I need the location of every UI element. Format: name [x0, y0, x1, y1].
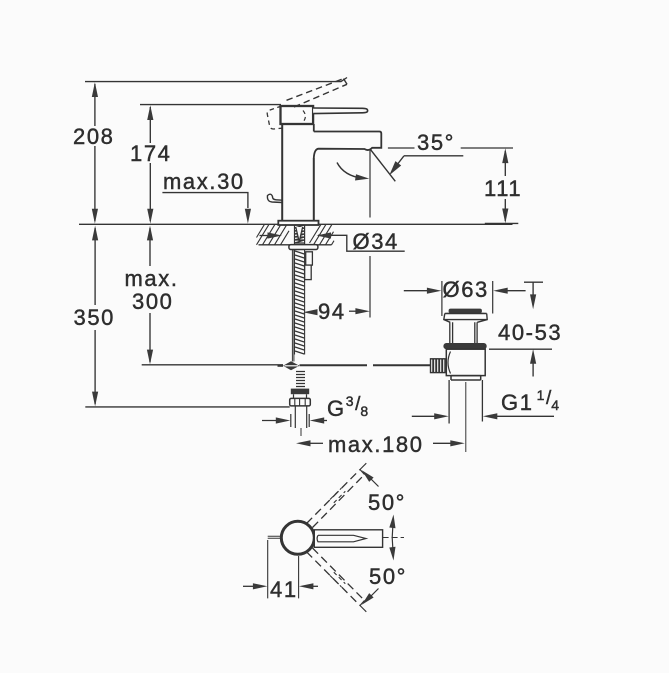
dim 40-53 mid extension [489, 348, 552, 350]
drain linkage knob [431, 359, 446, 373]
dim max.180 left arrow [308, 442, 323, 444]
faucet cap (cartridge housing) [281, 106, 314, 124]
svg-text:174: 174 [130, 141, 172, 166]
faucet base flange [278, 221, 318, 225]
plan view: faucet body circle [281, 521, 314, 554]
dim 174 arrow up [147, 105, 153, 120]
water stream line upper [369, 151, 371, 218]
plan view: -50 handle slot dashes [330, 572, 345, 587]
svg-text:50°: 50° [368, 490, 406, 515]
dim 35 deg reference line [388, 147, 513, 149]
shank thread below flange [295, 225, 305, 243]
dim 174 vertical line [149, 107, 151, 143]
deck hatching right [310, 224, 335, 245]
supply hose braid [295, 250, 305, 355]
dim G3/8 extent ticks [291, 414, 309, 427]
svg-text:41: 41 [270, 577, 298, 602]
dim 41 left arrow [243, 585, 257, 587]
horizontal pop-up linkage rod [300, 364, 368, 366]
dim 208 vertical line [94, 84, 96, 126]
dim 41 extent lines [268, 540, 299, 598]
drain rocker arc [448, 352, 451, 374]
dim max.300 arrow up [147, 226, 153, 241]
dim O63 right arrow [504, 290, 526, 292]
dim O34 right arrow [317, 232, 332, 238]
plan view: handle [314, 530, 382, 548]
linkage ball joint [283, 361, 300, 370]
dim max.30 underline and drop line [162, 193, 248, 208]
dim 94 right arrow [349, 310, 356, 312]
dim max.300 vertical line [149, 228, 151, 266]
dim G3/8 right arrow [320, 420, 327, 422]
deck hatching left [257, 224, 290, 245]
dim max.30 arrow down [245, 209, 251, 224]
plan view: pop-up rod [268, 536, 282, 538]
cap tilted position (dashed) [267, 106, 282, 129]
drain seal ring [443, 343, 486, 349]
dim 350 arrow down [92, 392, 98, 407]
svg-text:300: 300 [132, 289, 174, 314]
mounting washer and nut [289, 245, 318, 250]
plan view: center dash line [383, 537, 404, 539]
plan view: handle inner slot [317, 535, 366, 542]
plan view: handle at +50deg (dashed) [307, 470, 361, 524]
dim 350 arrow up [92, 226, 98, 241]
dim 350 bottom extension line [85, 406, 289, 408]
dim 111 vertical line [504, 151, 506, 176]
drain flare [444, 313, 487, 322]
svg-text:max.: max. [125, 266, 179, 291]
hose connection stub [306, 252, 313, 265]
dim 40-53 top extension [524, 281, 543, 283]
dim G1 1/4 left arrow [412, 415, 437, 417]
svg-text:40-53: 40-53 [498, 320, 562, 345]
faucet body right edge lower [313, 158, 315, 221]
cap inner dash [303, 111, 305, 122]
35 deg slanted aerator axis [370, 149, 395, 181]
dim 174 extension line [140, 104, 281, 106]
svg-text:Ø63: Ø63 [443, 277, 489, 302]
drain neck [450, 322, 477, 343]
drain bottom ring [451, 376, 481, 380]
dim max.300 arrow down [147, 350, 153, 365]
hose end tube [295, 406, 306, 428]
dim 40-53 vertical lower [532, 361, 534, 377]
dim 174 arrow down [147, 209, 153, 224]
dim max.180 right arrow [433, 442, 451, 444]
dim 41 right arrow [309, 585, 318, 587]
spring below ball joint [296, 372, 305, 387]
35 deg leader with arrow [404, 155, 463, 157]
lever handle (horizontal) [313, 108, 368, 114]
water direction arc arrow [337, 163, 363, 179]
svg-text:111: 111 [484, 176, 522, 201]
plan view: swing arc ticks [391, 527, 394, 548]
plan view: +50 arrow [362, 470, 374, 482]
drain tailpipe [449, 380, 482, 424]
dim G1 1/4 right arrow [494, 415, 554, 417]
dim 208 arrow down [92, 209, 98, 224]
dim 111 bottom extension [485, 222, 519, 224]
deck bottom line [259, 244, 332, 246]
pop-up rod below deck [292, 250, 294, 362]
svg-text:350: 350 [74, 305, 116, 330]
dim G3/8 left arrow [262, 420, 280, 422]
dim O34 leader bracket [318, 235, 405, 251]
water stream line lower [369, 256, 371, 318]
drain body [446, 349, 485, 375]
drain plug disc [449, 309, 482, 314]
dim 208 arrow up [92, 82, 98, 97]
svg-text:Ø34: Ø34 [353, 229, 399, 254]
dim 350 vertical line [94, 228, 96, 305]
dim 111 arrow up [502, 148, 508, 163]
plan view: +50 handle slot dashes [330, 488, 345, 503]
svg-text:max.30: max.30 [163, 169, 245, 194]
dim 94 left arrow [303, 309, 318, 315]
pop-up rod knob above deck [267, 194, 282, 202]
drain: dim O63 extent ticks [442, 281, 493, 316]
dim 208 top extension line [85, 78, 347, 82]
faucet body left edge [281, 124, 283, 221]
lever raised position (dashed) [287, 79, 344, 101]
deck / counter top line [79, 223, 513, 225]
dim max.300 bottom extension line [142, 364, 283, 366]
rod guide white triangle in shank [296, 227, 303, 242]
dim O34 left arrow [260, 235, 272, 237]
dim 111 arrow down [502, 209, 508, 224]
svg-text:50°: 50° [369, 564, 407, 589]
spout outline [314, 132, 382, 159]
svg-text:35°: 35° [417, 130, 455, 155]
drain center line [465, 382, 467, 452]
dim O63 left arrow [404, 290, 429, 292]
hose end thread block [291, 389, 309, 395]
hose end hex nut G3/8 [290, 398, 311, 406]
svg-text:max.180: max.180 [328, 432, 424, 457]
svg-text:94: 94 [318, 299, 346, 324]
faucet body right edge upper [313, 124, 315, 132]
plan view: handle at -50deg (dashed) [307, 552, 361, 606]
dim 40-53 vertical upper [532, 282, 534, 297]
plan view: -50 arrow [362, 593, 374, 605]
svg-text:208: 208 [73, 124, 115, 149]
